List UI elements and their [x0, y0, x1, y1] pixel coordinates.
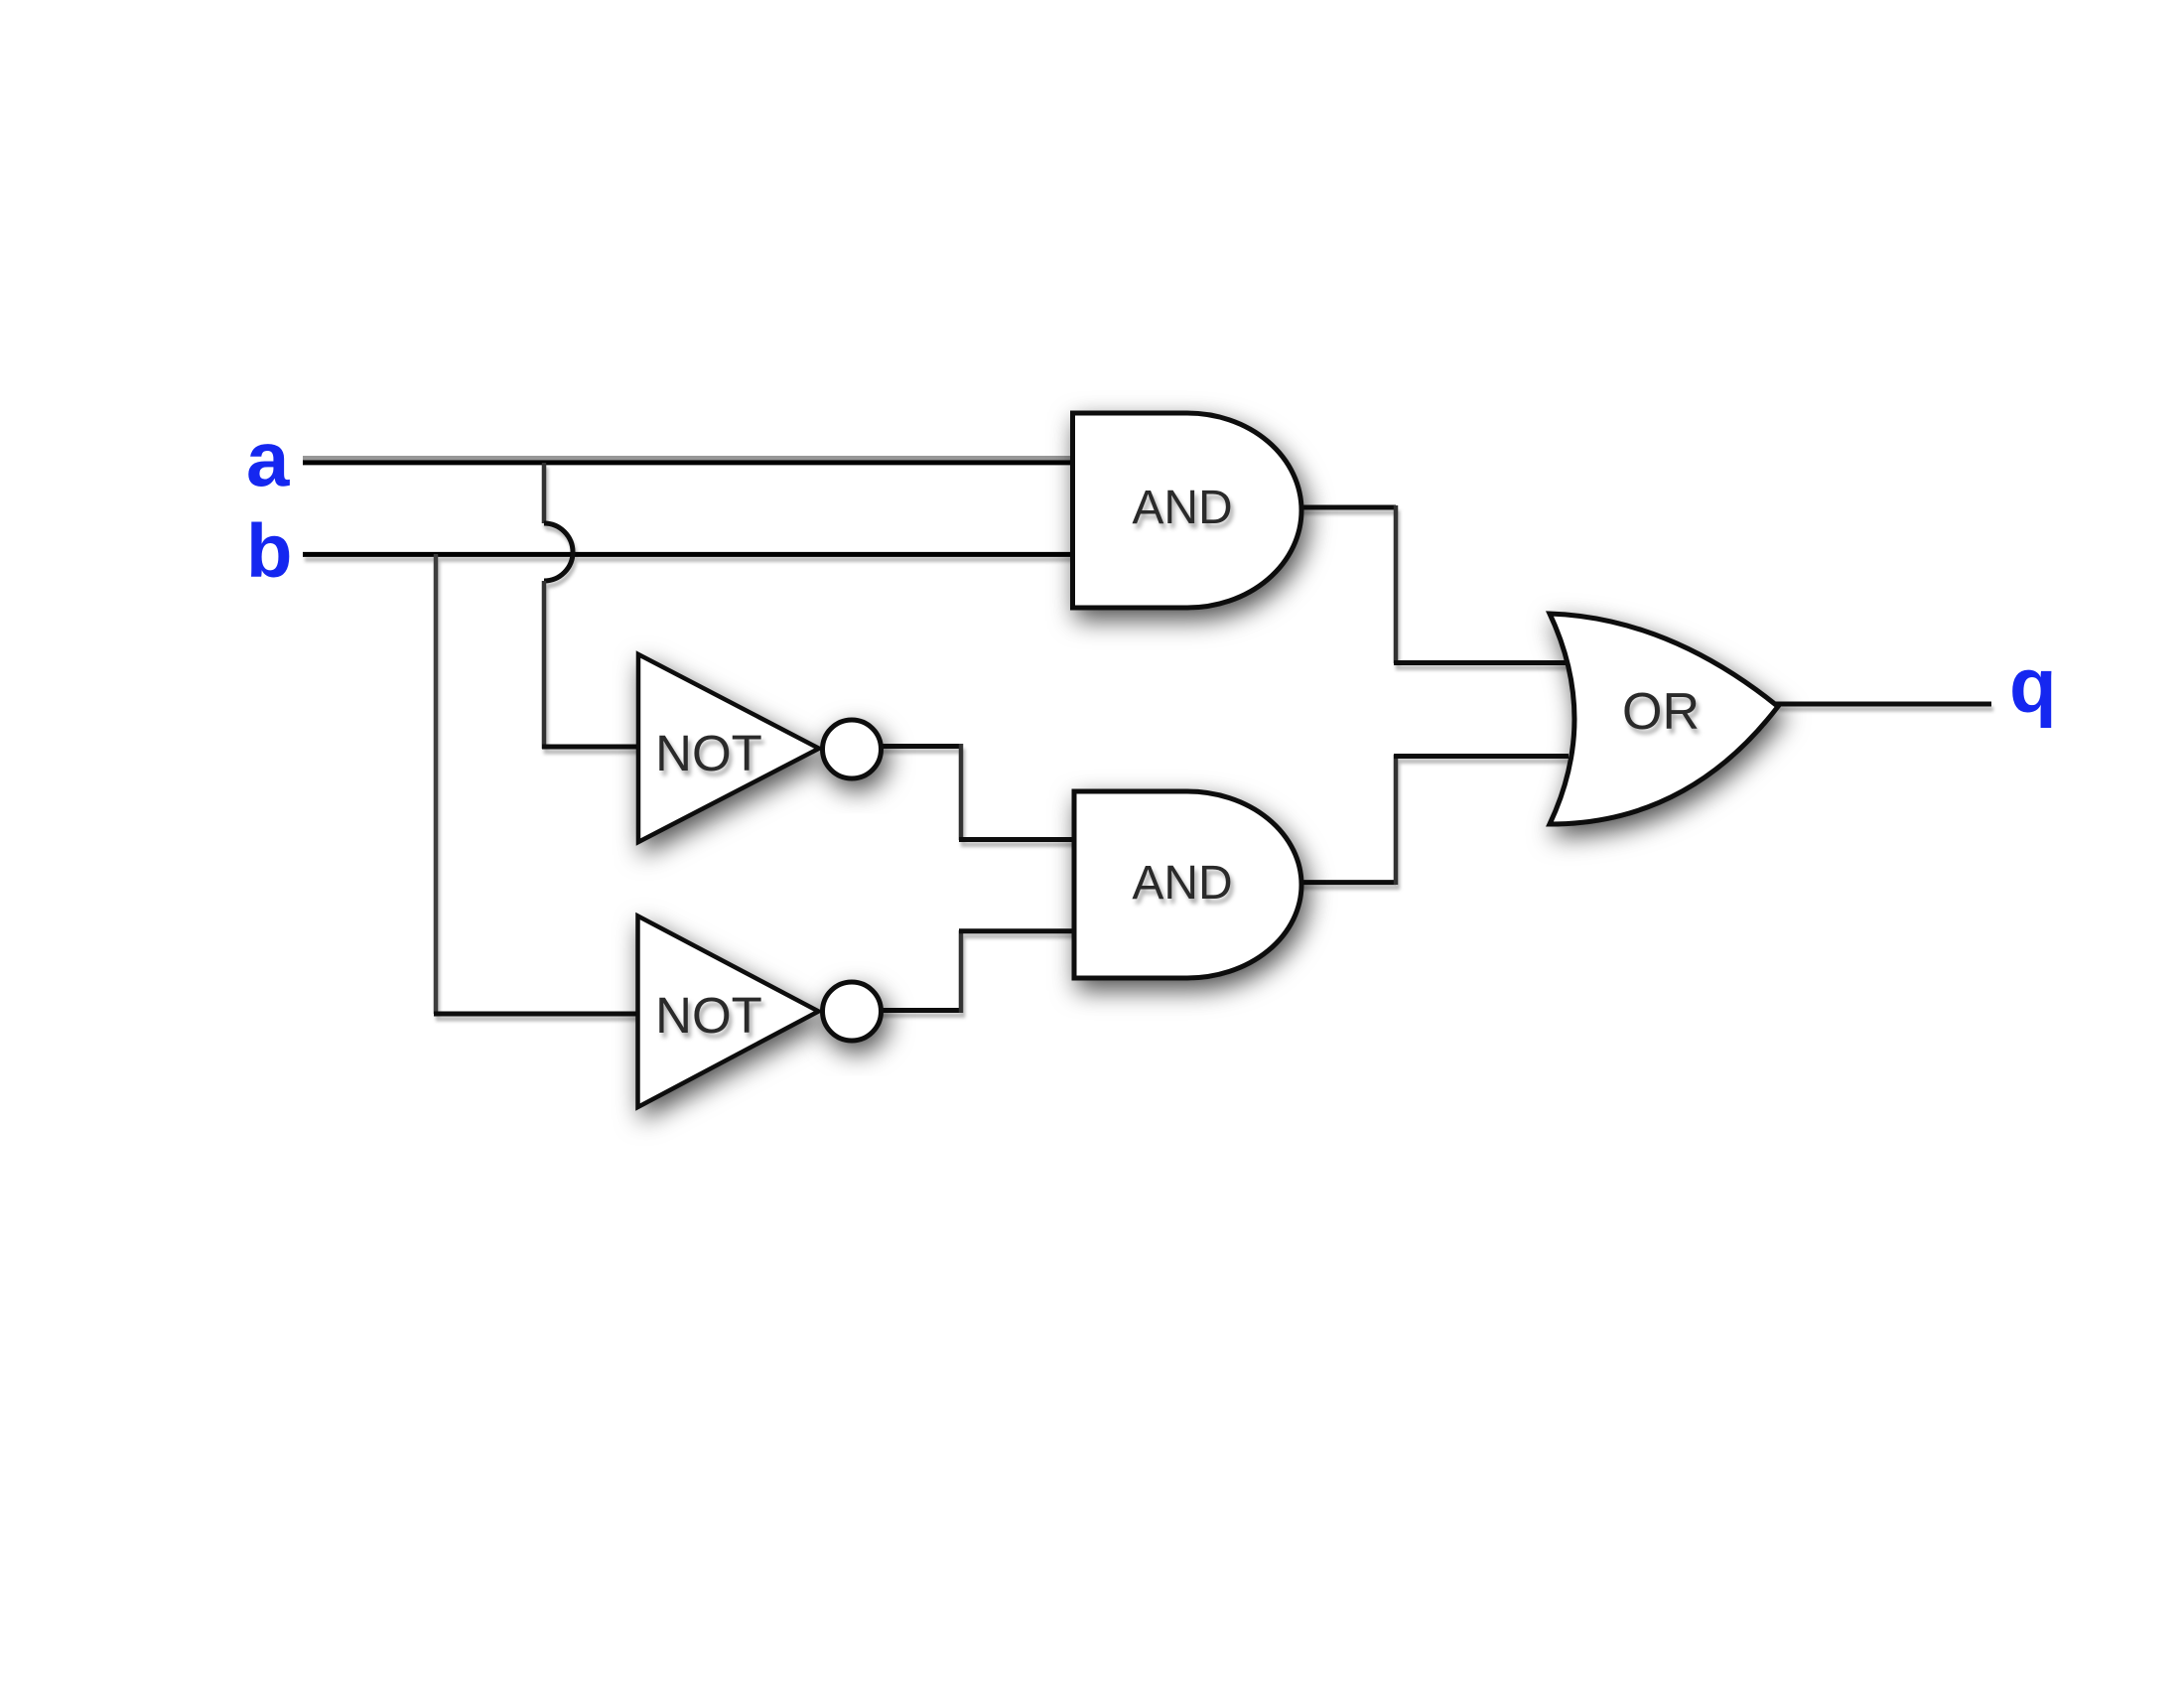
wire: NOT2 output horizontal from bubble: [879, 1008, 961, 1013]
wire: input a horizontal: [303, 460, 1073, 465]
NOT gate U3 (upper inverter): [638, 654, 819, 842]
wire: NOT1 output horizontal from bubble: [879, 744, 961, 749]
wire: NOT2 input horizontal: [434, 1012, 641, 1017]
wire: AND1 output vertical drop: [1394, 505, 1399, 663]
svg-text:AND: AND: [1132, 857, 1232, 910]
AND gate U1 (top): [1073, 413, 1302, 608]
svg-text:AND: AND: [1132, 482, 1232, 534]
svg-text:OR: OR: [1622, 683, 1700, 741]
OR gate U5: [1550, 614, 1778, 824]
AND gate U2 (bottom): [1074, 791, 1301, 978]
wire: AND2 top input horizontal: [959, 837, 1076, 842]
wire: AND2 output horizontal: [1298, 880, 1396, 885]
wire: AND1 output horizontal: [1298, 505, 1396, 510]
svg-text:q: q: [2009, 641, 2057, 729]
wire: NOT1 input horizontal: [542, 745, 641, 750]
wire: input b horizontal: [303, 552, 1073, 557]
svg-text:a: a: [246, 415, 290, 502]
NOT gate U4 (lower inverter): [638, 916, 819, 1108]
bubble U3: [823, 720, 882, 778]
wire: branch from a down to NOT1 (with hop over b): [542, 463, 547, 523]
wire: AND2 bottom input horizontal: [959, 928, 1076, 933]
svg-text:NOT: NOT: [655, 987, 762, 1044]
svg-text:NOT: NOT: [655, 725, 762, 781]
wire: OR output to q: [1776, 702, 1991, 707]
wire: branch continues down to NOT1 input: [542, 581, 547, 749]
wire: branch from b down to NOT2: [434, 554, 439, 1014]
wire: NOT1 output vertical drop: [959, 744, 964, 840]
svg-text:b: b: [246, 509, 292, 594]
bubble U4: [823, 982, 882, 1041]
wire: input a shadow band: [303, 456, 1070, 460]
wire: OR top input horizontal: [1394, 660, 1569, 665]
wire: NOT2 output vertical rise: [959, 930, 964, 1013]
wire: AND2 output vertical rise: [1394, 755, 1399, 885]
wire hop over b: [544, 523, 573, 581]
wire: OR bottom input horizontal: [1394, 754, 1569, 759]
